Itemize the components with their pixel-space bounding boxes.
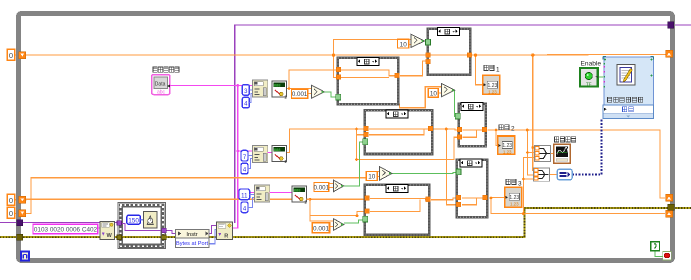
wire: shift register lines A and B (left) [15,172,380,227]
constant 0.001 (1) [292,89,308,98]
svg-text:1.23: 1.23 [510,202,519,207]
case structure C4 [365,110,432,154]
wire: case5 output to 电流3 and loop back [489,158,665,214]
svg-text:1.23: 1.23 [502,143,512,149]
wire: case6 interior and outputs [369,129,483,212]
hex string to number icon 3 [292,186,308,205]
case structure C6 [365,185,429,235]
constant 0 (low left) [7,207,14,218]
merge signals icon 1 [535,146,551,162]
svg-text:0: 0 [9,196,13,205]
wait (ms) icon [144,212,158,229]
icon [617,65,635,85]
string subset icon 3 [255,185,270,202]
hex string to number icon 1 [272,81,288,100]
svg-text:1: 1 [496,66,500,73]
chain constants: 3,4 [242,85,249,96]
magenta wire subset2 to hex2 [268,152,272,154]
wire: green boolean wires [324,41,662,257]
comparison triangle (10 #2) [441,84,455,97]
comparison triangle (10 #1) [411,34,425,47]
wire: merge outputs [550,154,558,175]
loop condition terminal [663,251,672,260]
indicator 读取缓冲区 (string) [152,75,170,96]
comparison triangle (0.001 c) [333,219,344,231]
label 读取缓冲区 [153,67,179,72]
flat sequence structure (film strip) [117,203,166,249]
comparison triangle (10 #3) [379,167,392,181]
olive tunnel on left border [17,234,23,240]
svg-text:10: 10 [400,41,408,48]
svg-text:888: 888 [274,82,281,87]
svg-text:1.23: 1.23 [488,89,497,94]
constant 150 [127,215,144,224]
constant 0.001 (3) [312,223,329,233]
merge signals icon 2 [534,168,550,181]
indicator 电流3 [505,187,522,207]
label 电流1 [484,65,494,70]
shift registers on left border [19,52,26,217]
purple tunnel on right border [668,22,674,28]
svg-text:R: R [224,233,228,239]
string subset icon 2 [253,146,268,163]
svg-text:0: 0 [9,209,13,218]
hex3 output wire to case6 [306,198,310,200]
constant 0 (top left) [7,49,14,60]
svg-text:0.001: 0.001 [314,185,330,192]
magenta wire subset3 to hex3 [270,192,292,194]
svg-text:Instr: Instr [186,232,197,238]
convert to dynamic data icon [557,169,572,179]
iteration terminal i [21,252,29,261]
svg-text:3: 3 [518,180,522,187]
waveform chart icon 电流曲线 [554,144,570,163]
blue stub wires constants to subset icons [248,90,255,207]
constant 10 (1) [398,39,409,48]
svg-text:1.23: 1.23 [509,195,519,201]
label 电流3 [506,179,516,184]
case structure C1 [428,28,470,75]
purple wire inside flat sequence [122,224,162,231]
constant 0 (mid left) [7,194,14,205]
tunnels: orange squares on case borders [336,53,487,214]
selector tunnels: green squares with ? [336,39,461,222]
wire: error cluster (olive dashed) [0,208,691,237]
svg-text:2: 2 [511,126,515,133]
svg-text:0: 0 [9,51,13,60]
chain constants: 7,4 [241,150,248,161]
svg-text:Bytes at Port: Bytes at Port [176,241,208,247]
VISA write icon [100,221,115,239]
hex string to number icon 2 [272,146,288,165]
case structure C3 [459,103,486,147]
Enable boolean control [580,68,598,87]
svg-text:0.001: 0.001 [313,226,329,233]
wire: chain2 value wires [286,129,458,188]
svg-text:W: W [107,233,113,239]
信号 row [603,105,654,114]
wire: case3 output to 电流2 and loop back [488,130,666,198]
constant 0.001 (2) [314,183,330,192]
chain constants: 11,4 [239,189,250,200]
wire: chain1 value wires [287,61,442,108]
svg-text:Enable: Enable [581,60,602,67]
tunnels on flat sequence [117,221,122,226]
olive tunnel on right border [668,204,674,210]
label 电流曲线 [555,137,576,142]
svg-text:1.23: 1.23 [503,149,512,154]
label 写入测量文件 [608,97,643,102]
connector dots on left edge [604,66,606,83]
wire: purple into VISA write (from outside left) [0,222,216,233]
case structure C5 [457,159,487,217]
string constant 0103 0020 0006 C402 [33,224,100,233]
comparison triangle (0.001 a) [311,85,324,98]
svg-text:888: 888 [274,147,281,152]
VISA property node: Bytes at Port row [176,238,210,247]
indicator 电流2 [498,136,515,154]
label 电流2 [499,125,509,130]
VISA read icon [216,222,232,239]
wire: blue bytes-at-port wire [209,230,217,244]
svg-text:abc: abc [157,90,166,96]
wire: purple VISA resource main line [235,25,691,223]
string subset icon 1 [253,80,268,97]
svg-text:1.23: 1.23 [488,83,498,89]
comparison triangle (0.001 b) [333,180,344,192]
svg-text:10: 10 [368,174,376,181]
wire: magenta string data vertical from VISA read [170,86,255,229]
wire: orange top shift-register line (电流1 loop) [15,40,666,171]
express VI 写入测量文件 [603,57,654,119]
VISA property node: Instr row [176,229,210,238]
constant 10 (3) [366,172,377,181]
purple tunnel on left border [17,220,23,226]
case structure C2 [338,58,398,105]
svg-text:888: 888 [294,187,301,192]
indicator 电流1 [483,75,500,94]
svg-text:0.001: 0.001 [292,91,308,98]
constant 10 (2) [428,89,438,98]
svg-text:Data: Data [155,82,166,88]
shift registers on right border [666,50,673,217]
svg-text:150: 150 [128,217,139,224]
wire: blue dynamic data dashed [572,119,602,175]
svg-text:TF: TF [586,82,592,87]
svg-text:11: 11 [241,193,248,199]
svg-text:10: 10 [430,90,438,97]
bottom strip [603,114,654,119]
svg-text:0103 0020 0006 C402: 0103 0020 0006 C402 [34,227,98,234]
stop boolean terminal [651,242,660,251]
